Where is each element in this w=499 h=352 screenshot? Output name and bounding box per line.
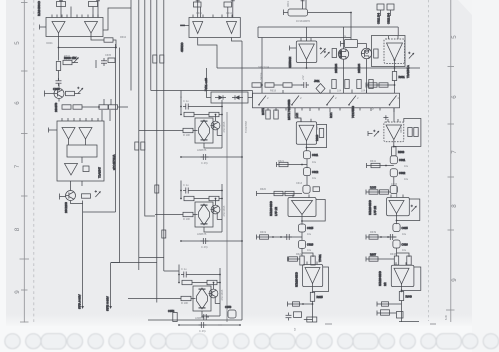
stub row y164 xyxy=(277,162,308,167)
switch lever 3 xyxy=(327,96,334,105)
fet Q604 xyxy=(361,48,371,58)
resistor bottom xyxy=(173,313,177,322)
svg-text:TYD1 ca60: TYD1 ca60 xyxy=(204,77,208,91)
resistor main r xyxy=(394,256,398,265)
rail bus vertical 2 xyxy=(138,0,140,270)
svg-text:8: 8 xyxy=(451,204,458,208)
stub row y313 r xyxy=(377,311,396,316)
pin ticks U605 xyxy=(307,262,317,265)
junction dots y237 xyxy=(272,236,282,238)
op-amp U605 box xyxy=(303,265,323,287)
film strip tiny marks xyxy=(218,324,436,325)
pin ticks U610 xyxy=(193,15,232,18)
wire gate drop fet1 xyxy=(343,27,345,49)
wire down to row xyxy=(393,177,395,186)
svg-text:C613: C613 xyxy=(296,182,303,185)
resistor R611 xyxy=(99,105,108,109)
stub row y166 xyxy=(367,163,394,168)
wire rail 37 xyxy=(258,37,351,39)
svg-text:2/2: 2/2 xyxy=(383,282,387,286)
rail bus vertical 4 xyxy=(150,0,152,91)
wire verticals into U608 xyxy=(396,186,398,198)
feedback loop U608 xyxy=(397,199,420,221)
svg-text:TP601: TP601 xyxy=(318,254,322,262)
wire gate drop fet2 xyxy=(366,44,368,49)
resistor row y166 xyxy=(371,163,380,167)
svg-text:IC601: IC601 xyxy=(46,42,53,45)
wire xtal top drop b xyxy=(305,0,307,9)
svg-text:NJM2043DD: NJM2043DD xyxy=(295,272,299,287)
svg-text:R621: R621 xyxy=(278,160,285,163)
resistor R603 xyxy=(63,60,72,64)
parts row y304 xyxy=(293,302,300,306)
svg-text:MUTE 74HC4053: MUTE 74HC4053 xyxy=(287,99,291,120)
svg-text:R620: R620 xyxy=(260,188,267,191)
junction xyxy=(301,220,303,222)
wire drop to opamp xyxy=(397,27,399,36)
bottom link xyxy=(304,319,313,321)
svg-text:R637: R637 xyxy=(370,254,377,257)
wire rows into DAC b xyxy=(109,110,111,121)
supply rail right of stages xyxy=(241,98,243,320)
electrolytic C636 xyxy=(393,240,400,248)
left ruler line xyxy=(23,0,25,323)
stub row y192 xyxy=(366,190,390,195)
svg-text:R642: R642 xyxy=(370,187,377,190)
wire down to cap xyxy=(58,71,60,81)
wire rail 68 xyxy=(217,67,420,69)
right ruler line xyxy=(450,0,452,322)
svg-text:C615: C615 xyxy=(307,226,314,230)
junction xyxy=(394,84,396,86)
top small caps C622 xyxy=(387,4,394,10)
op-amp U604 triangle xyxy=(292,201,313,215)
junction xyxy=(98,106,100,108)
switch lever 2 xyxy=(292,96,299,105)
svg-text:2SA970: 2SA970 xyxy=(54,102,58,112)
svg-text:LPF 1/2: LPF 1/2 xyxy=(274,206,278,216)
svg-text:ST5A 6-3GV: ST5A 6-3GV xyxy=(78,294,82,309)
top small caps C621 xyxy=(377,4,384,10)
cap row y314 xyxy=(286,313,292,321)
capacitor cluster xyxy=(101,58,107,66)
electrolytic C611 xyxy=(303,151,310,159)
svg-text:C654: C654 xyxy=(168,309,175,313)
wire cross y212 xyxy=(83,211,116,213)
rail pair to input rects xyxy=(115,44,117,212)
stub up from row b xyxy=(110,99,112,105)
resistor bottom b xyxy=(228,310,236,318)
level arrow U607 left xyxy=(373,130,379,137)
bridge stage 3 xyxy=(153,265,241,334)
pin ticks U607 xyxy=(388,119,398,122)
pin ticks U606 xyxy=(389,36,399,39)
U606 output dot xyxy=(394,59,396,61)
op-amp U604 box xyxy=(288,198,316,217)
svg-text:2SC2240: 2SC2240 xyxy=(64,202,68,213)
op-amp U610 package xyxy=(189,18,240,38)
capacitor above U602B b xyxy=(224,2,232,7)
resistor R633 xyxy=(392,147,396,156)
wire lower cross link xyxy=(139,257,164,259)
svg-text:C632: C632 xyxy=(399,171,406,175)
resistor row y193 a xyxy=(274,191,283,195)
svg-text:C611: C611 xyxy=(312,153,319,157)
pin ticks DAC top xyxy=(62,118,98,121)
stub xtal left xyxy=(284,10,289,16)
wire left drop xyxy=(257,27,259,38)
stub row y304 xyxy=(288,302,313,307)
junction node xyxy=(115,47,117,49)
junction xtal xyxy=(350,12,352,14)
resistor row y85 a xyxy=(368,83,377,87)
label sw 2 marks xyxy=(267,96,400,100)
wire stub xyxy=(95,60,97,68)
wire U610B out to rail xyxy=(232,38,243,42)
svg-text:R633: R633 xyxy=(398,150,405,154)
op-amp U609 triangle xyxy=(394,268,409,284)
feedback loop U605 xyxy=(313,267,329,292)
wire stage1 top feed xyxy=(180,91,182,99)
wire DAC down b xyxy=(81,181,83,186)
diode D601 xyxy=(215,95,226,99)
resistor beside C613 xyxy=(313,187,320,192)
svg-text:C636: C636 xyxy=(402,243,409,247)
capacitor row d xyxy=(301,82,309,88)
wire top rail 27 xyxy=(258,26,398,28)
op-amp U609 box xyxy=(391,265,414,286)
stub U602 left xyxy=(290,46,297,51)
op-amp U601 package xyxy=(46,18,103,37)
connector diamond xyxy=(316,84,325,94)
resistor row y237 r xyxy=(369,235,378,239)
film sprocket hole row xyxy=(5,334,20,349)
input stub Q651 xyxy=(60,194,66,200)
op-amp U602 triangle xyxy=(299,44,315,60)
svg-text:6: 6 xyxy=(451,95,458,99)
U606 outer box xyxy=(372,36,406,67)
junction xyxy=(306,147,308,149)
switch lever 5 xyxy=(390,96,397,105)
svg-text:NJM2043DD: NJM2043DD xyxy=(368,200,372,215)
parts row y313 r xyxy=(381,310,390,315)
svg-text:+5V: +5V xyxy=(302,75,305,80)
svg-text:9: 9 xyxy=(451,278,458,282)
resistor row y192 a xyxy=(369,190,378,194)
left dashed fold line xyxy=(33,0,35,323)
wire pin drop b2 xyxy=(232,0,234,18)
resistor main xyxy=(300,256,304,265)
svg-text:5: 5 xyxy=(451,35,458,39)
junction xyxy=(306,67,308,69)
extra bus pin stubs xyxy=(268,108,380,111)
svg-text:TC9176BP: TC9176BP xyxy=(245,120,248,133)
svg-text:NJM4560D: NJM4560D xyxy=(37,0,41,16)
wire supply drop to pin xyxy=(92,7,94,18)
stub row y237 xyxy=(366,235,397,240)
resistor below bank b xyxy=(274,110,278,119)
electrolytic C635 xyxy=(393,224,400,232)
resistor R607 xyxy=(66,91,75,95)
diode pair box D601/D602 xyxy=(211,92,248,103)
pin ticks U608 xyxy=(391,195,403,198)
resistor beside fet1 xyxy=(332,49,336,58)
wire U606 out down xyxy=(394,61,396,72)
wire between xyxy=(301,232,303,240)
stub row y304 r xyxy=(377,302,402,307)
wire rows into DAC xyxy=(101,110,103,121)
U606 inner amp box xyxy=(384,39,405,63)
stub delay left xyxy=(341,41,345,47)
svg-text:R619: R619 xyxy=(260,231,267,234)
wire row2 xyxy=(292,84,302,86)
pin stubs below bank xyxy=(262,108,394,112)
wire stage3 feed xyxy=(128,298,153,300)
svg-text:R604: R604 xyxy=(120,36,127,39)
svg-text:LPF 2/2: LPF 2/2 xyxy=(373,205,377,215)
right ruler ticks xyxy=(448,66,455,68)
junction dots y237 r xyxy=(380,236,389,238)
svg-text:R602: R602 xyxy=(64,55,71,58)
wire fet2 source down xyxy=(366,59,368,93)
svg-text:TDA1541A: TDA1541A xyxy=(406,65,410,78)
svg-text:74HCU04: 74HCU04 xyxy=(258,66,270,69)
stub tick block2 xyxy=(383,115,388,120)
svg-text:R618: R618 xyxy=(270,90,277,93)
resistor branch r xyxy=(407,256,411,265)
stub left U607 xyxy=(368,131,373,136)
wire bus feed joins bank xyxy=(252,91,254,98)
pin ticks U603 xyxy=(301,119,311,122)
wire xyxy=(72,62,78,64)
small circle input left xyxy=(365,50,369,54)
left ruler ticks xyxy=(21,70,28,72)
stub up from row xyxy=(103,99,105,105)
svg-text:C612: C612 xyxy=(226,12,233,15)
wire down split xyxy=(301,248,303,256)
resistor R612 xyxy=(109,105,118,109)
switch pin dots xyxy=(258,104,390,106)
rail tap resistor pair a xyxy=(153,55,164,63)
level arrow xyxy=(95,190,101,197)
resistor R601 vertical xyxy=(56,62,60,71)
level arrow xyxy=(77,87,83,94)
resistor row b xyxy=(265,83,274,87)
svg-text:6-30: 6-30 xyxy=(445,314,448,320)
svg-text:104: 104 xyxy=(337,90,342,93)
wire diode box right to switch bank xyxy=(248,97,253,99)
parts row y304 r xyxy=(382,302,389,306)
electrolytic C615 xyxy=(298,224,305,232)
svg-text:ST: ST xyxy=(294,327,297,331)
svg-text:NJM2043DD: NJM2043DD xyxy=(378,271,382,286)
op-amp A triangle xyxy=(52,22,65,34)
svg-text:SPDIF: SPDIF xyxy=(260,72,263,80)
wire down to row xyxy=(394,81,396,94)
resistor row c xyxy=(283,83,292,87)
svg-text:uPC4570HA: uPC4570HA xyxy=(112,154,116,170)
svg-text:7: 7 xyxy=(14,164,21,168)
pin ticks U604 xyxy=(293,195,309,198)
wire row join xyxy=(82,106,99,108)
op-amp U610A triangle xyxy=(193,22,203,34)
resistor branch xyxy=(311,256,315,265)
stub row y259 r xyxy=(366,257,394,262)
electrolytic C631 xyxy=(390,156,397,164)
junction node xyxy=(58,47,60,49)
stub row y259 xyxy=(288,257,300,262)
wire Q651 to rail xyxy=(71,201,83,204)
rail bus vertical 6 xyxy=(163,0,165,271)
svg-text:X601: X601 xyxy=(287,1,290,7)
junction xyxy=(393,146,395,148)
svg-text:ST5B 6-3GV: ST5B 6-3GV xyxy=(106,296,110,311)
G_CIRCUIT xyxy=(37,0,448,333)
svg-text:R640: R640 xyxy=(406,295,413,299)
junction rail68 xyxy=(394,67,396,69)
resistor row h xyxy=(369,80,373,89)
supply rail from U610 xyxy=(241,41,243,98)
switch bank long box xyxy=(253,93,400,108)
resistor row R609 xyxy=(62,105,71,109)
parts row y314 xyxy=(294,312,302,318)
svg-text:R639: R639 xyxy=(370,231,377,234)
wire left drop down xyxy=(261,38,263,90)
wire join y263 xyxy=(111,262,120,264)
svg-text:R632: R632 xyxy=(400,126,403,133)
elco small xyxy=(390,186,397,194)
resistor beside fet2 xyxy=(374,49,378,58)
svg-text:10u: 10u xyxy=(404,165,409,168)
capacitor above U602B a xyxy=(194,2,202,7)
wire IC to rails xyxy=(103,8,131,30)
svg-text:C633: C633 xyxy=(391,183,398,186)
U606 triangle xyxy=(387,43,403,60)
pin stubs above bank xyxy=(262,90,367,94)
wire cells to summing box b xyxy=(85,139,87,145)
svg-text:R616: R616 xyxy=(315,134,319,141)
svg-text:9: 9 xyxy=(14,290,21,294)
feedback loop U603 xyxy=(307,125,327,148)
wire DAC down to Q651 xyxy=(70,181,72,191)
electrolytic C612 xyxy=(303,168,310,176)
svg-text:C616: C616 xyxy=(307,243,314,247)
resistor row f xyxy=(345,80,349,89)
op-amp U608 box xyxy=(387,198,410,216)
capacitor C502 xyxy=(89,2,98,7)
wire supply drop to pin xyxy=(70,7,72,18)
wire between elcos xyxy=(306,159,308,168)
svg-text:C622 104: C622 104 xyxy=(388,13,391,24)
resistor R640 xyxy=(399,292,403,301)
svg-text:R622: R622 xyxy=(296,253,303,256)
resistor row y259 xyxy=(289,257,298,261)
wire bank to block2 xyxy=(393,108,395,122)
wire row to rail xyxy=(118,106,129,108)
resistor row y164 xyxy=(279,162,288,166)
svg-text:LCH: LCH xyxy=(296,113,299,118)
small rect in DAC xyxy=(83,166,89,172)
resistor row R610 xyxy=(73,105,82,109)
DAC package box xyxy=(57,121,104,181)
wire emitter down xyxy=(58,99,60,102)
input stub DAC left xyxy=(49,128,58,133)
level arrow U606 xyxy=(408,52,414,59)
wire horiz y263 xyxy=(111,262,157,264)
rail pair to input rects b xyxy=(119,48,121,264)
svg-text:8: 8 xyxy=(14,227,21,231)
G_HOLES bottom sprocket strip xyxy=(5,334,499,350)
op-amp U603 triangle xyxy=(299,125,314,141)
faint rail xyxy=(226,112,228,322)
wire fet1 source down xyxy=(343,59,345,93)
svg-text:R617: R617 xyxy=(316,123,319,130)
wire stage3 top link xyxy=(164,270,179,272)
resistor row g xyxy=(357,80,361,89)
wire delay right xyxy=(358,43,367,45)
wire down split r xyxy=(396,248,398,256)
extra value labels column fuzz xyxy=(258,35,409,256)
svg-text:TDA1547: TDA1547 xyxy=(98,166,102,178)
svg-text:R631: R631 xyxy=(399,75,406,79)
wire stage1 feed xyxy=(139,130,155,132)
svg-text:C635: C635 xyxy=(402,226,409,230)
stub row y85 xyxy=(366,83,395,88)
wire U604 out xyxy=(301,215,303,225)
junction xyxy=(396,220,398,222)
right scale numbers 5-9 xyxy=(451,35,458,282)
feedback loop U604 xyxy=(302,200,325,222)
cap y237 r xyxy=(388,234,396,240)
svg-text:10u: 10u xyxy=(404,178,409,181)
svg-text:C605: C605 xyxy=(105,54,112,57)
wire emitter down long xyxy=(82,201,84,308)
level arrow U602 right xyxy=(320,47,326,54)
right dashed fold line xyxy=(428,0,430,321)
op-amp cell B triangle xyxy=(79,128,92,140)
svg-text:C612: C612 xyxy=(312,170,319,174)
svg-text:C656: C656 xyxy=(225,305,232,309)
caps in loop b xyxy=(414,128,418,137)
wire U603 out xyxy=(306,141,308,151)
svg-text:R625: R625 xyxy=(317,295,324,299)
resistor row e xyxy=(332,80,336,89)
pin ticks U602 xyxy=(301,38,311,41)
svg-text:NJM2043DD: NJM2043DD xyxy=(269,201,273,216)
svg-text:16.9344MHz: 16.9344MHz xyxy=(296,20,311,23)
junction xyxy=(401,290,403,292)
svg-text:4558DD: 4558DD xyxy=(180,42,184,52)
top terminal ticks xyxy=(59,0,305,2)
branch right xyxy=(302,253,313,257)
capacitor bottom xyxy=(201,314,209,320)
wire xtal out right xyxy=(308,12,352,14)
svg-text:6: 6 xyxy=(14,101,21,105)
pin ticks U609 xyxy=(396,262,406,265)
junction xyxy=(385,165,387,167)
wire feedback row xyxy=(59,47,117,49)
svg-text:R641: R641 xyxy=(370,160,377,163)
input stub U610 xyxy=(180,24,189,26)
wire U610A out xyxy=(198,38,217,69)
crystal box X601 xyxy=(288,9,308,16)
svg-text:NE5534N: NE5534N xyxy=(288,57,292,68)
resistor row y193 b xyxy=(285,191,294,195)
electrolytic C613 xyxy=(303,185,310,193)
wire drop 12 to 27 xyxy=(350,13,352,40)
wire down r xyxy=(401,301,403,323)
svg-text:10u: 10u xyxy=(402,249,407,252)
